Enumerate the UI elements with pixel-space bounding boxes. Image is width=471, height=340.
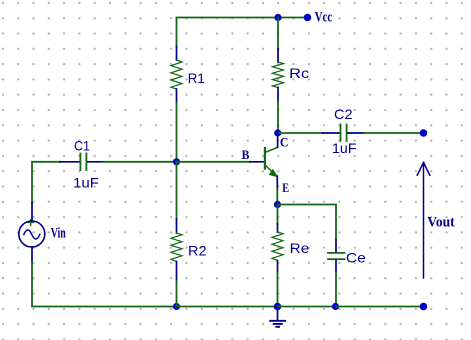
svg-text:R2: R2 bbox=[188, 243, 207, 259]
wire top rail from R1 top to Rc junction bbox=[177, 18, 279, 47]
node Ce bottom junction dot bbox=[332, 303, 339, 310]
wire bottom rail ground to Ce bbox=[278, 306, 337, 308]
capacitor C2 bbox=[322, 125, 363, 142]
svg-text:B: B bbox=[242, 147, 250, 162]
resistor Re bbox=[272, 224, 283, 273]
svg-text:C: C bbox=[280, 135, 289, 150]
wire C2 to output terminal bbox=[364, 132, 424, 134]
pin label B bbox=[242, 147, 250, 162]
wire Rc bottom to collector node bbox=[277, 102, 279, 134]
pin label C bbox=[280, 135, 289, 150]
wire emitter to E node bbox=[276, 189, 278, 205]
ground bbox=[270, 307, 285, 327]
svg-text:Ce: Ce bbox=[346, 249, 366, 265]
value label 1uF of C2 bbox=[332, 140, 357, 156]
wire Vin to bottom rail bbox=[32, 262, 177, 307]
node R2 bottom junction dot bbox=[173, 303, 180, 310]
svg-text:Rc: Rc bbox=[289, 65, 309, 81]
node junction dot top rail / Rc bbox=[274, 14, 281, 21]
value label Ce bbox=[346, 249, 366, 265]
wire C1 row: corner to C1 left pin bbox=[32, 162, 60, 203]
Vout arrow bbox=[417, 163, 430, 279]
svg-text:Re: Re bbox=[290, 240, 310, 256]
svg-text:1uF: 1uF bbox=[332, 140, 357, 156]
node collector junction dot bbox=[274, 129, 281, 136]
capacitor Ce bbox=[328, 240, 345, 272]
node base junction dot bbox=[173, 158, 180, 165]
value label R2 bbox=[188, 243, 207, 259]
svg-text:E: E bbox=[282, 180, 289, 195]
wire collector node to C2 bbox=[278, 132, 323, 134]
value label C2 bbox=[334, 106, 353, 122]
pin label E bbox=[282, 180, 289, 195]
wire bottom rail R2 to ground junction bbox=[177, 306, 278, 308]
wire E node to Ce branch bbox=[278, 205, 337, 241]
transistor Q1 bbox=[250, 133, 278, 189]
node emitter junction dot bbox=[274, 201, 281, 208]
wire Re to ground junction bbox=[277, 273, 279, 307]
node Vcc terminal dot bbox=[304, 14, 312, 22]
net label Vcc bbox=[315, 9, 333, 25]
source Vin bbox=[19, 203, 45, 262]
net label Vin bbox=[51, 225, 66, 241]
wire Ce to bottom rail bbox=[335, 272, 337, 307]
value label Rc bbox=[289, 65, 309, 81]
svg-text:Vin: Vin bbox=[51, 225, 66, 241]
net label Vout bbox=[427, 215, 455, 231]
wire Rc junction to Vcc terminal bbox=[278, 17, 307, 19]
svg-text:C1: C1 bbox=[74, 138, 90, 154]
value label R1 bbox=[188, 70, 205, 86]
resistor R1 bbox=[171, 47, 182, 104]
value label C1 bbox=[74, 138, 90, 154]
wire base junction down to R2 bbox=[176, 162, 178, 219]
wire bottom rail Ce to output terminal bbox=[336, 306, 424, 308]
node ground junction dot bbox=[274, 303, 282, 311]
capacitor C1 bbox=[60, 154, 103, 171]
resistor Rc bbox=[273, 18, 284, 102]
wire R1 bottom to base junction bbox=[176, 103, 178, 162]
svg-text:R1: R1 bbox=[188, 70, 205, 86]
svg-text:C2: C2 bbox=[334, 106, 353, 122]
svg-text:Vout: Vout bbox=[427, 215, 455, 231]
node bottom output terminal dot bbox=[420, 303, 428, 311]
value label 1uF of C1 bbox=[73, 175, 99, 191]
wire base junction to transistor base bbox=[177, 161, 251, 163]
wire E node down to Re bbox=[277, 205, 279, 225]
resistor R2 bbox=[171, 219, 182, 281]
svg-text:1uF: 1uF bbox=[73, 175, 99, 191]
wire C1 to base junction bbox=[103, 161, 177, 163]
node output terminal dot bbox=[420, 129, 428, 137]
value label Re bbox=[290, 240, 310, 256]
wire R2 to bottom rail bbox=[176, 281, 178, 307]
svg-text:Vcc: Vcc bbox=[315, 9, 333, 25]
